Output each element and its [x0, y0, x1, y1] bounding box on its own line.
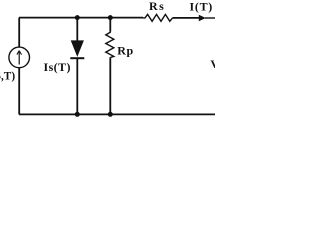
wire bottom horizontal — [19, 113, 215, 115]
svg-text:S,T): S,T) — [0, 70, 15, 82]
wire left vertical upper — [18, 18, 20, 47]
wire diode branch upper — [76, 18, 78, 41]
wire Rp branch upper — [109, 18, 111, 32]
node junction bottom Rp — [108, 112, 113, 117]
svg-text:Rs: Rs — [149, 0, 165, 13]
svg-text:Rp: Rp — [117, 44, 134, 58]
resistor Rp — [106, 32, 114, 58]
svg-text:Is(T): Is(T) — [44, 60, 71, 74]
resistor Rs — [143, 14, 173, 21]
svg-text:I(T): I(T) — [190, 0, 213, 13]
node junction top diode — [75, 15, 80, 20]
wire top horizontal — [19, 17, 143, 19]
node junction top Rp — [108, 15, 113, 20]
current source Iph — [9, 47, 30, 68]
node junction bottom diode — [75, 112, 80, 117]
svg-text:V: V — [210, 57, 215, 71]
wire thin continuation right edge — [205, 17, 215, 19]
wire top right to arrow — [173, 17, 200, 19]
wire diode branch lower — [76, 59, 78, 115]
wire Rp branch lower — [109, 57, 111, 114]
arrow I(T) head — [199, 15, 206, 21]
wire left vertical lower — [18, 68, 20, 114]
diode D — [70, 40, 84, 58]
